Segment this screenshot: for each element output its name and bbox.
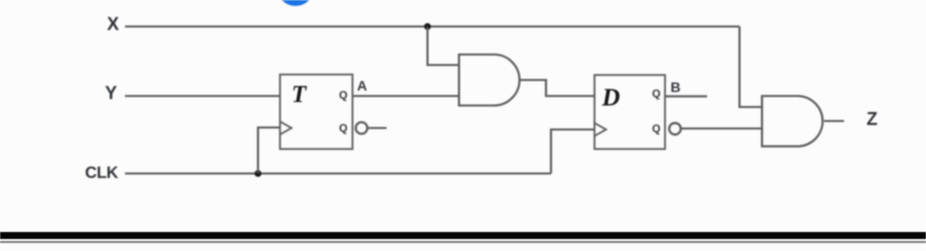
bottom black divider bar bbox=[0, 232, 926, 239]
AND gate G1 bbox=[459, 55, 520, 106]
svg-text:D: D bbox=[601, 85, 620, 112]
svg-text:X: X bbox=[107, 14, 119, 34]
junction dot on CLK bbox=[255, 170, 262, 177]
T flip-flop U1 box bbox=[280, 75, 353, 150]
wire G1 output to D input bbox=[520, 80, 595, 96]
wire CLK main horizontal bbox=[125, 172, 551, 174]
D flip-flop U2 box bbox=[595, 75, 666, 149]
wire Y to T input bbox=[125, 95, 280, 97]
wire B stub from D Q bbox=[665, 95, 707, 97]
svg-text:CLK: CLK bbox=[85, 164, 118, 182]
wire A from T Q to gate G1 bbox=[353, 95, 460, 97]
wire X right drop to gate G2 bbox=[740, 27, 763, 108]
wire G2 output bbox=[824, 120, 844, 122]
svg-text:B: B bbox=[671, 79, 681, 95]
D flip-flop Qbar bubble bbox=[669, 123, 681, 135]
wire CLK branch to T clock bbox=[258, 128, 280, 174]
bottom thin gray line bbox=[0, 241, 926, 243]
T flip-flop Qbar bubble bbox=[356, 122, 368, 134]
svg-text:Q: Q bbox=[339, 123, 348, 135]
wire X branch to gate G1 bbox=[428, 27, 460, 66]
wire CLK branch to D clock bbox=[551, 130, 595, 174]
junction dot on X bbox=[424, 23, 431, 30]
AND gate G2 bbox=[762, 96, 823, 146]
T flip-flop clock triangle bbox=[280, 122, 292, 135]
svg-text:Z: Z bbox=[867, 109, 878, 129]
svg-text:T: T bbox=[292, 82, 308, 108]
wire X main horizontal bbox=[125, 25, 740, 27]
wire D Qbar to gate G2 bbox=[681, 127, 762, 129]
blue scroll knob bbox=[277, 0, 314, 6]
svg-text:Y: Y bbox=[105, 83, 117, 103]
svg-text:A: A bbox=[357, 78, 367, 94]
svg-text:Q: Q bbox=[652, 123, 661, 135]
D flip-flop clock triangle bbox=[595, 123, 607, 136]
wire T Qbar stub bbox=[368, 127, 387, 129]
svg-text:Q: Q bbox=[339, 90, 348, 102]
svg-text:Q: Q bbox=[652, 88, 661, 100]
